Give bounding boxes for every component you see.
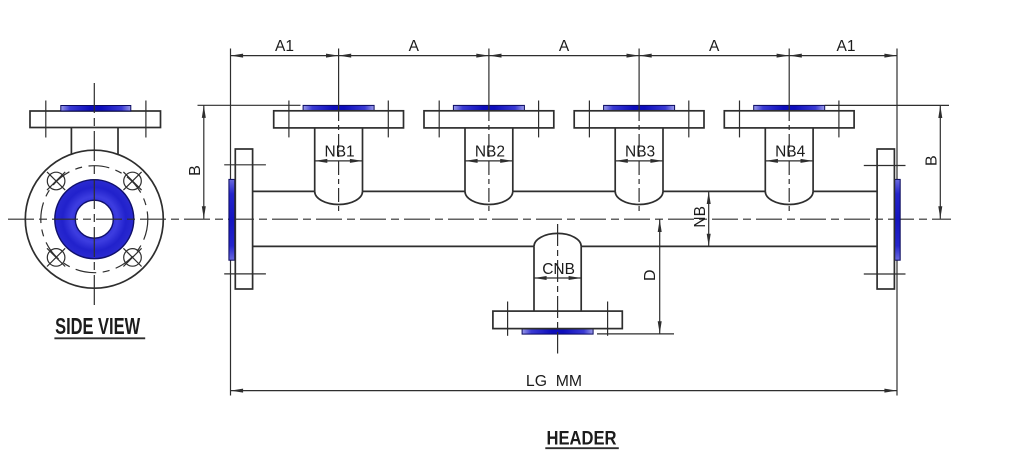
nozzle NB4 dome: [765, 191, 813, 204]
nozzle NB1 gasket: [303, 105, 374, 111]
nozzle NB1 centerline: [338, 49, 340, 216]
nozzle CNB neck: [534, 246, 581, 311]
dimension CNB: [534, 261, 581, 280]
svg-text:B: B: [187, 165, 204, 176]
nozzle NB3 centerline: [638, 49, 640, 216]
nozzle NB2 neck: [465, 128, 513, 191]
right extension line: [896, 49, 898, 396]
svg-text:A: A: [709, 38, 720, 55]
nozzle NB4 gasket: [754, 105, 825, 111]
dimension A arrows 3: [639, 54, 789, 58]
nozzle NB3 bolt lines: [589, 101, 688, 138]
dimension NB (pipe bore): [692, 191, 711, 246]
side view gasket: [61, 106, 131, 112]
svg-text:NB2: NB2: [475, 143, 505, 160]
nozzle NB3 dome: [615, 191, 663, 204]
nozzle NB4 neck: [765, 128, 813, 191]
dimension D: [597, 219, 674, 334]
dimension NB4: [765, 143, 813, 163]
side view bolt hole 2: [123, 172, 141, 190]
right flange bolt lines: [864, 166, 906, 275]
nozzle NB3 flange: [574, 111, 704, 128]
svg-text:A: A: [409, 38, 420, 55]
nozzle NB2 bolt lines: [439, 101, 538, 138]
svg-text:D: D: [642, 269, 659, 281]
nozzle NB1 neck: [315, 128, 363, 191]
svg-text:SIDE VIEW: SIDE VIEW: [55, 313, 140, 339]
dimension LG: [231, 373, 898, 392]
side view flange bolt lines: [46, 101, 146, 138]
nozzle NB2 flange: [424, 111, 554, 128]
dimension B right: [825, 105, 949, 218]
header pipe bottom wall: [253, 245, 878, 247]
svg-text:NB: NB: [692, 206, 709, 228]
nozzle NB2 gasket: [453, 105, 524, 111]
right end flange: [877, 149, 894, 289]
dimension A arrows 2: [489, 54, 639, 58]
nozzle CNB flange: [493, 311, 622, 329]
svg-text:A1: A1: [275, 38, 294, 55]
side view outer flange circle: [25, 150, 163, 288]
nozzle NB1 dome: [315, 191, 363, 204]
dimension A1 left arrows: [231, 54, 339, 58]
nozzle NB1 flange: [274, 111, 404, 128]
nozzle NB3 neck: [615, 128, 663, 191]
dimension A1 right arrows: [789, 54, 897, 58]
svg-text:A1: A1: [837, 38, 856, 55]
svg-text:LG MM: LG MM: [526, 373, 582, 390]
dimension NB3: [615, 143, 663, 163]
side view blue bore annulus: [55, 180, 134, 259]
svg-text:CNB: CNB: [542, 261, 575, 278]
side view nozzle neck: [71, 128, 118, 155]
left extension line: [230, 49, 232, 396]
left end flange gasket: [229, 179, 235, 260]
nozzle CNB bolt lines: [508, 302, 608, 336]
nozzle NB1 bolt lines: [289, 101, 388, 138]
nozzle CNB gasket: [522, 329, 593, 335]
svg-text:A: A: [559, 38, 570, 55]
svg-text:B: B: [923, 155, 940, 166]
header pipe top wall: [253, 190, 878, 192]
nozzle NB2 centerline: [488, 49, 490, 216]
title SIDE VIEW: [54, 313, 145, 339]
svg-text:NB1: NB1: [325, 143, 355, 160]
svg-text:NB4: NB4: [775, 143, 806, 160]
svg-text:NB3: NB3: [625, 143, 655, 160]
left end flange: [235, 149, 252, 289]
dimension NB2: [465, 143, 513, 163]
title HEADER: [545, 427, 619, 449]
nozzle NB4 bolt lines: [740, 101, 839, 138]
nozzle CNB centerline: [557, 224, 559, 354]
dimension A arrows 1: [339, 54, 489, 58]
side view bolt circle (dashed): [41, 166, 148, 273]
nozzle CNB dome: [534, 233, 581, 246]
dimension NB1: [315, 143, 363, 163]
side view bolt hole 1: [47, 172, 65, 190]
side view nozzle flange: [30, 111, 161, 128]
side view vertical centerline: [93, 83, 95, 305]
side view bolt hole 3: [47, 248, 65, 266]
top dimension line: [231, 55, 898, 57]
side view bolt hole 4: [123, 248, 141, 266]
left flange bolt lines: [224, 165, 266, 274]
nozzle NB4 flange: [724, 111, 854, 128]
svg-text:HEADER: HEADER: [547, 427, 617, 449]
dimension B left: [187, 105, 301, 219]
right end flange gasket: [894, 179, 900, 260]
nozzle NB3 gasket: [604, 105, 675, 111]
nozzle NB2 dome: [465, 191, 513, 204]
main pipe centerline: [8, 218, 951, 220]
nozzle NB4 centerline: [788, 49, 790, 216]
